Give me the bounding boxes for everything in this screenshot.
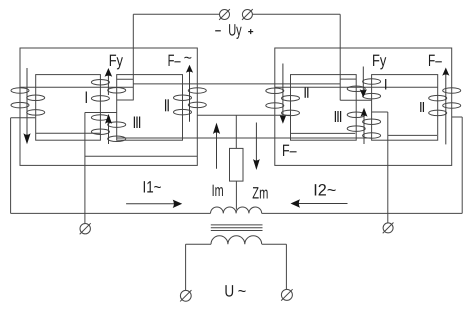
arrow current direction left leg A2 (down) [279,64,286,124]
arrow I2 direction (left) [291,199,348,207]
terminal -Uy [219,9,230,20]
wire winding III tap (A2) [372,111,388,113]
arrow F-~ (A1, up) [186,65,193,122]
wire winding return A2 (lower) [388,134,437,136]
wire left side down to bus [10,118,12,214]
wire to resistor Zm top [235,115,237,148]
svg-text:Uy: Uy [228,21,242,39]
wire (series link W2 to W4) [117,137,372,139]
coil left leg A1 (winding II left) [11,88,45,115]
svg-text:I2~: I2~ [313,182,336,200]
terminal U~ right [281,289,292,300]
arrow Im (up) [213,123,220,169]
svg-text:~: ~ [238,283,247,301]
wire resistor Zm bottom to transformer tap [235,181,237,209]
wire drop from +Uy terminal into A2 [339,14,341,100]
core outline right amplifier A2 (outer) [275,48,452,165]
wire exit left winding A1 [11,117,36,119]
coil winding II right leg A2 [429,88,461,116]
arrow I1 direction (right) [126,200,182,208]
wire drop from -Uy terminal into A1 [132,14,134,100]
core window W1 (A1 left) [36,75,101,141]
svg-text:Im: Im [212,182,224,200]
svg-text:Zm: Zm [252,184,268,202]
wire down to U~ terminal left [185,244,187,290]
wire secondary left [186,243,211,245]
svg-text:U: U [224,282,234,300]
wire right side down to bus [461,117,463,213]
label + (Uy plus) [248,31,253,33]
wire from terminal +Uy [252,13,340,15]
wire down to U~ terminal right [285,244,287,289]
wire across W1 (A1 winding feed) [19,86,133,88]
wire stub winding I top (A2) [340,78,356,80]
terminal +Uy [242,9,253,20]
arrow Fy flux (A2, down) [360,67,367,98]
coil left leg A2 (winding II left) [266,88,300,116]
wire stub winding I top (A1) [116,78,133,80]
arrow winding III (A1, up) [105,114,112,144]
wire winding III tap (A1) [85,112,117,114]
coil winding I / Fy (A2 middle leg upper) [347,79,380,99]
svg-text:I1~: I1~ [143,179,162,197]
label - (Uy minus) [215,30,221,32]
wire down to load terminal left [84,113,86,224]
wire to winding I (A1) [117,99,134,101]
label winding I (A2) [385,79,387,90]
svg-text:F–: F– [282,142,297,160]
core window W3 (A2 left) [291,75,357,141]
svg-text:F–: F– [168,52,182,70]
arrow F- (A2, up) [442,68,449,145]
svg-text:F–: F– [428,52,442,70]
wire bus left to transformer [11,212,211,214]
wire down to load terminal right [387,112,389,223]
svg-text:Fy: Fy [109,52,124,70]
wire load circuit A1 to A2 [197,114,290,116]
wire to terminal -Uy [133,13,219,15]
arrow current direction left leg A1 (down) [23,68,30,144]
terminal output left [80,223,91,234]
label winding III (A1) [134,117,139,129]
transformer T primary winding [211,207,262,213]
core window W2 (A1 right) [117,75,183,141]
coil winding III (A1 middle leg lower) [91,115,125,142]
arrow winding III (A2, up) [361,108,368,144]
label winding II left (A2) [305,88,308,98]
core outline left amplifier A1 (outer) [20,48,197,165]
wire secondary right [262,243,287,245]
svg-text:~: ~ [184,50,192,67]
label winding III (A2) [335,111,340,122]
arrow Zm current (down) [253,123,260,171]
terminal U~ left [180,290,191,301]
resistor Zm [230,148,244,181]
transformer T core [211,224,263,226]
label winding II right (A2) [421,102,424,112]
coil winding I / Fy (A1 middle leg upper) [91,79,125,101]
label winding I (A1) [85,92,87,104]
coil winding II right leg A1 [174,88,207,115]
wire to winding I (A2) [340,99,371,101]
svg-text:Fy: Fy [372,52,387,70]
wire bus transformer to right [262,212,463,214]
wire (winding link inside W1) [36,132,101,134]
transformer T secondary winding [211,236,262,244]
wire control bus A1 to A2 [133,83,340,85]
arrow Fy flux (A1, up) [105,68,113,95]
wire exit right winding A2 [452,116,462,118]
core window W4 (A2 right) [372,75,438,141]
wire across W3/W4 (A2 winding feed) [275,86,438,88]
coil winding III (A2 middle leg lower) [347,112,380,138]
wire winding return A1 (lower) [85,155,198,157]
terminal output right [383,223,394,234]
wire (winding link inside W3) [291,132,356,134]
label winding II (A1) [166,99,169,111]
